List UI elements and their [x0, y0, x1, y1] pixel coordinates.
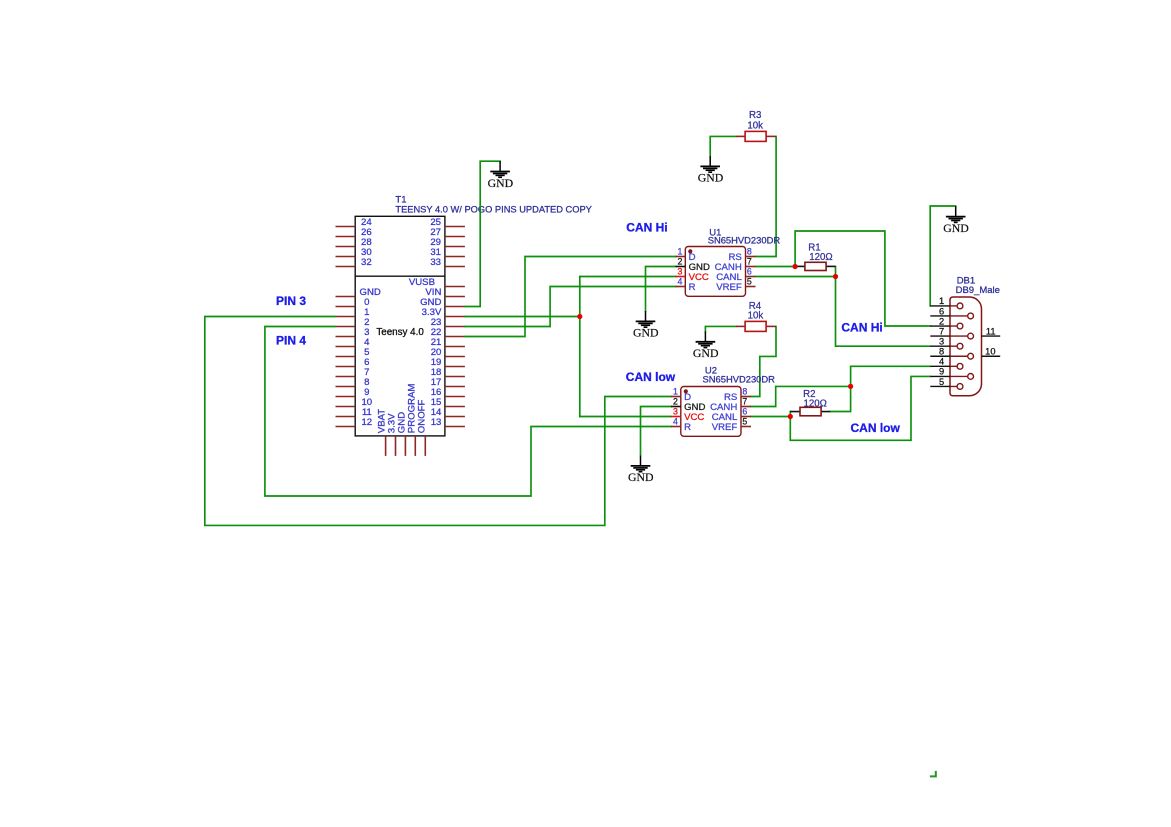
transceiver U2 pin 5 (VREF): [741, 426, 751, 428]
junction CANH/R1: [793, 264, 798, 269]
svg-text:3: 3: [939, 336, 944, 346]
svg-text:7: 7: [742, 397, 747, 407]
wire R2 right to DB9 pin4: [830, 366, 930, 411]
wire R4 left to ground: [705, 326, 736, 331]
DB1 pin 4: [930, 365, 950, 367]
wire PIN 3 net: T1 pin1 to U2 pin D: [205, 317, 671, 526]
DB1 pin 10: [982, 355, 1001, 357]
transceiver U2 pin 4 (R): [671, 426, 681, 428]
svg-text:6: 6: [742, 407, 747, 417]
DB1 pin 2: [930, 325, 950, 327]
T1 pin names right column (VUSB-13): [409, 277, 442, 428]
resistor R4 10k: [736, 301, 776, 332]
svg-text:GND: GND: [633, 326, 659, 340]
svg-text:4: 4: [939, 357, 944, 367]
sheet corner mark bottom-right: [930, 771, 936, 777]
svg-text:1: 1: [673, 387, 678, 397]
svg-text:9: 9: [939, 367, 944, 377]
junction CANL/R1: [833, 274, 838, 279]
junction U2 CANH/R2: [848, 384, 853, 389]
svg-text:120Ω: 120Ω: [809, 252, 832, 263]
DB1 pin 8: [930, 355, 950, 357]
transceiver U1 pin 4 (R): [676, 286, 686, 288]
wire 3.3V vertical to U1/U2 VCC: [579, 277, 581, 417]
ground below U2: [631, 456, 651, 472]
DB1 pin 11: [982, 335, 1001, 337]
T1 pin names top section right (25-33): [430, 217, 441, 268]
wire R4 right to U2 RS: [751, 326, 776, 396]
wire to U2 VCC: [580, 416, 671, 418]
junction U2 CANL/R2: [788, 414, 793, 419]
T1 pin names top section left (24-32): [361, 217, 372, 268]
svg-text:DB9_Male: DB9_Male: [956, 285, 1000, 296]
svg-text:10: 10: [985, 347, 995, 357]
svg-text:2: 2: [677, 257, 682, 267]
svg-text:8: 8: [742, 387, 747, 397]
DB1 pin 1: [930, 305, 950, 307]
svg-text:R: R: [689, 282, 696, 293]
svg-text:PIN 4: PIN 4: [276, 334, 306, 348]
svg-text:120Ω: 120Ω: [803, 399, 826, 410]
svg-text:TEENSY 4.0 W/ POGO PINS UPDATE: TEENSY 4.0 W/ POGO PINS UPDATED COPY: [395, 204, 591, 214]
resistor R1 120 ohm: [795, 242, 835, 270]
transceiver U1 pin 6 (CANL): [746, 276, 756, 278]
svg-text:1: 1: [939, 296, 944, 306]
svg-text:VREF: VREF: [716, 282, 742, 293]
transceiver U1 pin-1 indicator dot: [688, 249, 692, 253]
transceiver U1 pin 1 (D): [676, 256, 686, 258]
transceiver U1 body: [685, 247, 745, 297]
transceiver U2 pin-1 indicator dot: [684, 389, 688, 393]
svg-text:13: 13: [431, 417, 442, 428]
svg-text:10k: 10k: [747, 121, 763, 132]
transceiver U2 pin 6 (CANL): [741, 416, 751, 418]
wire T1 pin22 to U1 pin D: [465, 257, 676, 337]
wire R1 right down to DB9 pin3: [836, 267, 931, 347]
svg-text:PIN 3: PIN 3: [276, 294, 306, 308]
svg-text:CAN low: CAN low: [851, 421, 901, 435]
wire T1 pin23 to U1 pin R: [465, 287, 676, 327]
svg-text:2: 2: [673, 397, 678, 407]
T1 pin names left column (GND,0-12): [360, 287, 381, 428]
svg-text:ONOFF: ONOFF: [416, 399, 427, 433]
svg-text:7: 7: [747, 257, 752, 267]
wire U1 GND pin to ground: [646, 267, 676, 312]
svg-text:CAN Hi: CAN Hi: [841, 320, 882, 334]
T1 body section divider: [355, 275, 445, 277]
svg-text:32: 32: [361, 257, 372, 268]
svg-text:6: 6: [747, 267, 752, 277]
ground below R3: [700, 156, 720, 172]
svg-text:GND: GND: [360, 287, 381, 298]
svg-text:GND: GND: [488, 176, 514, 190]
svg-text:GND: GND: [628, 470, 654, 484]
svg-text:1: 1: [677, 247, 682, 257]
wire U1 CANL to junction: [756, 276, 836, 278]
svg-text:12: 12: [361, 417, 372, 428]
svg-text:GND: GND: [693, 346, 719, 360]
svg-text:2: 2: [939, 316, 944, 326]
transceiver U2 pin 8 (RS): [741, 396, 751, 398]
transceiver U1 pin 7 (CANH): [746, 266, 756, 268]
wire 3.3V net horizontal from T1: [465, 316, 580, 318]
T1 right pin stubs: [445, 227, 465, 427]
wire U2 GND pin to ground: [641, 407, 672, 456]
transceiver U2 body: [681, 387, 741, 437]
wire U2 CANH to junction: [751, 386, 851, 406]
wire T1 GND pin to ground: [465, 161, 500, 306]
svg-text:5: 5: [939, 377, 944, 387]
T1 bottom pin stubs: [386, 436, 426, 456]
svg-text:3: 3: [677, 267, 682, 277]
svg-text:R: R: [684, 422, 691, 433]
svg-text:11: 11: [986, 326, 996, 336]
transceiver U1 pin 5 (VREF): [746, 286, 756, 288]
svg-text:GND: GND: [943, 221, 969, 235]
svg-text:CAN Hi: CAN Hi: [626, 221, 667, 235]
svg-text:7: 7: [939, 326, 944, 336]
transceiver U1 pin 3 (VCC): [676, 276, 686, 278]
svg-text:Teensy 4.0: Teensy 4.0: [376, 327, 424, 338]
junction 3.3V net: [577, 314, 582, 319]
transceiver U2 pin 3 (VCC): [671, 416, 681, 418]
resistor R2 120 ohm: [790, 389, 830, 416]
DB1 pin 6: [930, 315, 950, 317]
svg-text:5: 5: [747, 277, 752, 287]
DB1 pin 7: [930, 335, 950, 337]
transceiver U1 pin 8 (RS): [746, 256, 756, 258]
svg-text:CAN low: CAN low: [626, 370, 676, 384]
wire R3 right to U1 RS: [756, 136, 777, 256]
transceiver U2 pin 2 (GND): [671, 406, 681, 408]
ground left of R4: [696, 332, 716, 348]
ground near T1 top: [490, 161, 510, 177]
svg-text:SN65HVD230DR: SN65HVD230DR: [703, 374, 776, 385]
connector DB1 DB9_Male body: [950, 297, 982, 396]
wire CAN low to DB9 pin9: [790, 376, 930, 440]
svg-text:4: 4: [677, 277, 682, 287]
transceiver U2 pin 7 (CANH): [741, 406, 751, 408]
wire R3 left to ground: [710, 136, 736, 156]
svg-text:6: 6: [939, 306, 944, 316]
svg-text:10k: 10k: [748, 310, 764, 321]
svg-text:GND: GND: [698, 171, 724, 185]
T1 bottom pin names (rotated) VBAT 3.3V GND PROGRAM ONOFF: [377, 384, 428, 434]
ground below U1: [636, 311, 656, 327]
wire DB9 ground to DB9 pin1: [930, 206, 956, 306]
wire U2 CANL to junction: [751, 416, 790, 418]
svg-text:VREF: VREF: [712, 422, 738, 433]
DB1 pin 5: [930, 385, 950, 387]
wire to U1 VCC: [580, 276, 676, 278]
svg-text:8: 8: [747, 247, 752, 257]
resistor R3 10k: [736, 110, 776, 141]
DB1 pin 9: [930, 375, 950, 377]
DB1 pin 3: [930, 345, 950, 347]
T1 left pin stubs: [336, 227, 356, 427]
svg-text:SN65HVD230DR: SN65HVD230DR: [708, 235, 781, 246]
transceiver U2 pin 1 (D): [671, 396, 681, 398]
wire CAN Hi to DB9 pin2: [795, 231, 930, 326]
svg-text:5: 5: [742, 417, 747, 427]
svg-text:3: 3: [673, 407, 678, 417]
svg-text:33: 33: [430, 257, 441, 268]
microcontroller T1 TEENSY 4.0 symbol body: [355, 216, 445, 436]
wire U1 CANH to R1 junction: [756, 266, 796, 268]
svg-text:4: 4: [673, 417, 678, 427]
transceiver U1 pin 2 (GND): [676, 266, 686, 268]
wire PIN 4 net: T1 pin2 to U2 pin R: [265, 327, 671, 497]
ground above DB9: [946, 206, 966, 222]
svg-text:8: 8: [939, 347, 944, 357]
